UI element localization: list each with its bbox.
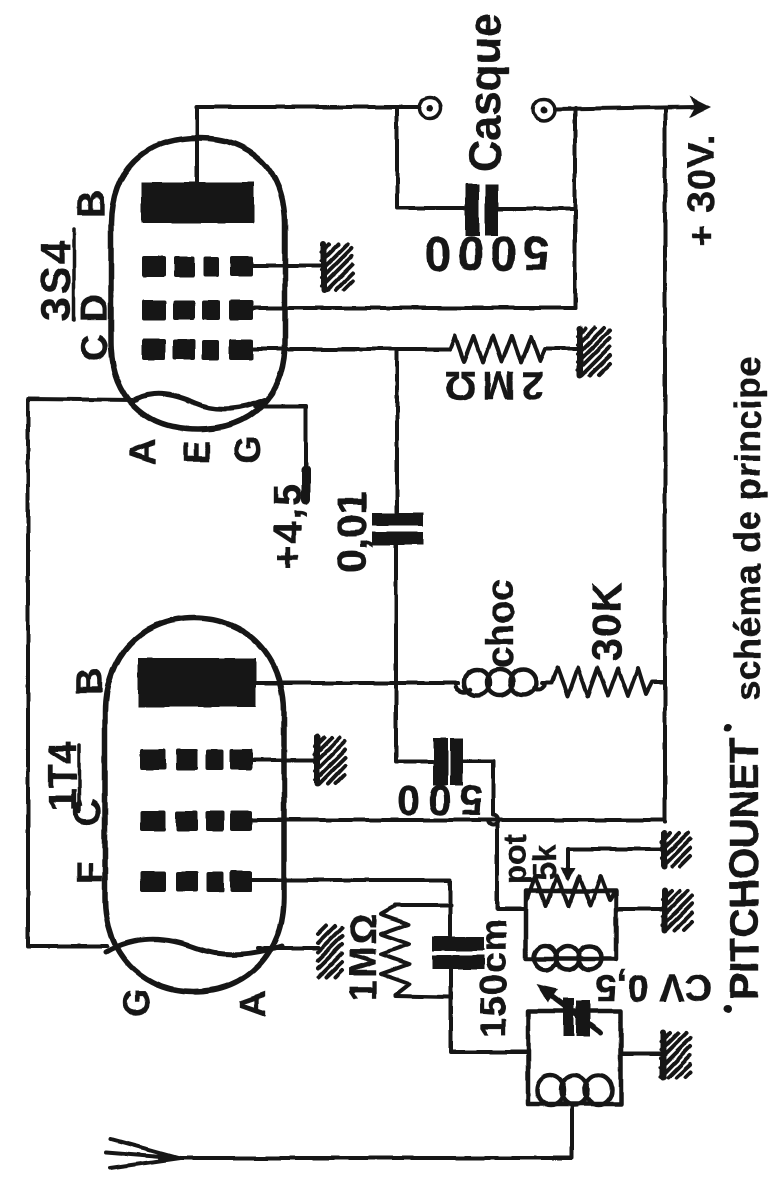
anode plate U1 (B) [138,658,256,707]
svg-text:D: D [74,295,116,322]
wire U2 grid1 to ground [253,264,322,268]
wire U1 plate to choke [256,681,458,685]
underline 1T4 [77,745,81,811]
battery tip 4.5V [302,470,311,500]
arrow +30V [689,96,711,118]
svg-text:0,01: 0,01 [328,491,375,573]
wire U2 grid3 row to 2M resistor [253,347,450,351]
svg-text:150cm: 150cm [473,918,514,1038]
potentiometer element zigzag [528,876,615,906]
svg-text:F: F [69,862,110,884]
svg-text:3S4: 3S4 [32,237,79,321]
wire 5000 cap right [498,207,575,211]
wire long grid bus y820 [248,818,665,822]
grid row 2 U1 [140,811,252,831]
quote marks PITCHOUNET [724,724,732,732]
ground pot right [663,891,692,930]
grid row 1 U2 [142,256,253,277]
svg-text:CV 0,5: CV 0,5 [596,966,712,1008]
grid row 3 U2 [142,339,253,360]
grid row 2 U2 [142,300,253,320]
svg-text:G: G [227,436,268,464]
resistor 30K [542,668,665,696]
wire bus to pot [497,822,526,909]
potentiometer 5k box [526,891,616,959]
resistor 1M zigzag [381,906,409,995]
svg-text:A: A [122,439,163,465]
grid row 3 U1 [140,871,252,892]
svg-text:5k: 5k [527,844,563,880]
wire tank right to ground [621,1052,661,1056]
capacitor 150cm [432,937,484,969]
underline 3S4 [72,229,76,320]
svg-text:+ 30V.: + 30V. [681,134,723,247]
variable capacitor arrow [549,994,601,1033]
svg-text:2MΩ: 2MΩ [438,363,544,407]
wire rail corner at bottom of +30V rail [663,820,667,822]
svg-text:E: E [176,440,217,464]
svg-text:C: C [74,335,116,362]
ground U2 grid1 [322,244,352,290]
wire U1 grid3 to grid capacitor [248,880,450,936]
wire +30V rail down right side [663,108,667,822]
wire U2 filament E to battery [255,406,306,496]
wire terminal2 to +30V arrow [555,107,698,109]
svg-text:1MΩ: 1MΩ [343,912,385,1001]
svg-text:5000: 5000 [419,226,550,279]
svg-text:Casque: Casque [461,13,510,172]
capacitor 5000 [465,184,498,236]
svg-text:500: 500 [389,777,483,824]
antenna [106,1139,180,1168]
headphone terminal 2 [533,99,555,121]
variable capacitor CV plates [563,998,590,1036]
wire U2 screen row to right branch [253,306,575,310]
tube U2 base wavy line [131,394,264,409]
tank circuit box L1 [528,1011,621,1104]
pot wiper wire to ground [568,849,661,878]
potentiometer coil bottom [534,946,601,970]
wiper arrowhead [561,868,575,882]
headphone terminal 1 [419,97,441,119]
wire 500 cap right to bus [463,761,498,825]
tube U1 base wavy line [106,939,282,954]
wire right branch vertical [573,108,577,308]
wire 0.01 cap down to plate wire and 500 cap [396,545,432,761]
wire pot right to ground [616,907,663,911]
svg-text:B: B [69,668,111,695]
wire tank bottom to antenna [177,1104,572,1158]
resistor 2M [450,336,578,362]
wire branch to 5000 cap [397,107,464,208]
tube U1 1T4 envelope [105,618,284,992]
tube U2 3S4 envelope [111,138,285,429]
tank coil L1 [537,1075,612,1105]
wire U1 grid1 to ground [252,758,316,762]
grid row 1 U1 [140,749,252,770]
svg-text:C: C [67,799,109,826]
svg-text:B: B [71,191,113,218]
ground 2M [578,328,610,375]
ground U1 grid1 [315,737,345,784]
ground U1 filament [318,926,342,977]
svg-text:30K: 30K [583,581,630,661]
ground tank [661,1033,690,1077]
choke coil [456,687,470,691]
ground pot wiper [662,833,690,866]
svg-text:PITCHOUNET: PITCHOUNET [721,738,767,1000]
wire filament loop left side [28,399,137,946]
svg-text:schéma de principe: schéma de principe [727,356,768,701]
svg-text:G: G [116,989,157,1017]
wire U2 plate to top rail [197,107,419,182]
anode plate U2 (B) [141,182,254,223]
resistor 1M leads [395,905,451,997]
capacitor 500 [433,738,463,786]
wire junction down to 0.01 cap [395,349,399,512]
svg-text:+4,5: +4,5 [266,482,310,569]
wire 150cm cap down to tank [451,969,528,1052]
svg-text:choc: choc [480,579,522,668]
wire U1 filament to ground [258,946,318,950]
svg-text:A: A [232,991,273,1017]
capacitor 0.01 [372,513,423,545]
